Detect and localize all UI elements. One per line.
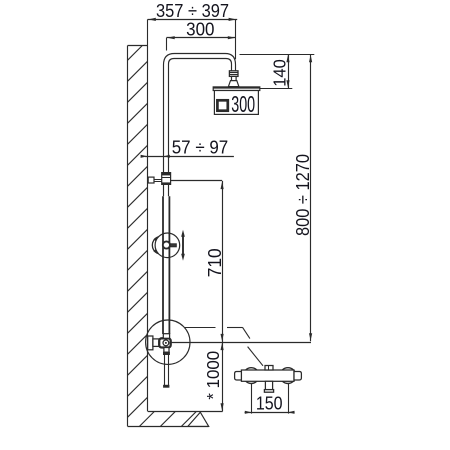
floor: hatched band [148, 411, 223, 413]
rotation arc arrow [152, 237, 157, 253]
faucet right cap [294, 372, 301, 381]
shower head ball-joint connector [229, 71, 238, 77]
slider holder circle [155, 233, 180, 258]
wire riser rail (thick section) [162, 196, 164, 334]
wire riser below diverter (thin section) [163, 184, 165, 196]
svg-text:140: 140 [270, 59, 290, 87]
dim 710 top extension line [171, 180, 223, 182]
mixer bottom stem [164, 348, 169, 353]
dim 140 vertical [240, 54, 315, 56]
svg-text:300: 300 [186, 19, 214, 40]
mixer valve body [159, 338, 171, 347]
mixer top stem [163, 334, 169, 339]
dim 150 [251, 384, 253, 414]
mixer connector [153, 339, 159, 347]
faucet body [241, 370, 294, 381]
dim 800÷1270 vertical right [310, 54, 312, 341]
wire riser pipe with top bend [164, 54, 236, 174]
wall: hatched strip [127, 46, 129, 427]
wire outlet tube below mixer [164, 355, 166, 386]
dim 357÷397 top [148, 19, 238, 21]
faucet outlet [265, 381, 272, 389]
dim 57÷97 [145, 156, 234, 158]
svg-text:150: 150 [256, 392, 283, 413]
svg-text:300: 300 [231, 91, 255, 117]
vertical slide double arrow [182, 234, 184, 258]
leader line circle to detail [185, 327, 216, 329]
mixer wall flange [148, 336, 153, 350]
wall supply elbow square [148, 177, 154, 183]
mixer detail circle [146, 320, 190, 364]
stem wall elbow to fitting [154, 179, 162, 181]
dim *1000 vertical [222, 342, 224, 411]
svg-text:* 1000: * 1000 [203, 351, 223, 400]
dim 300 top [167, 37, 237, 39]
faucet right knob [280, 368, 296, 384]
shower head (side view plate) [213, 87, 260, 91]
diverter fitting [162, 173, 171, 185]
faucet top button [265, 366, 273, 371]
extension line mixer level [171, 342, 311, 344]
faucet left knob [243, 368, 259, 384]
svg-text:710: 710 [204, 248, 225, 277]
svg-text:800 ÷ 1270: 800 ÷ 1270 [292, 154, 313, 236]
svg-text:57 ÷ 97: 57 ÷ 97 [172, 137, 229, 158]
label box: square head 300 [214, 91, 258, 115]
faucet left cap [235, 372, 242, 381]
dim 710 vertical [222, 181, 224, 342]
